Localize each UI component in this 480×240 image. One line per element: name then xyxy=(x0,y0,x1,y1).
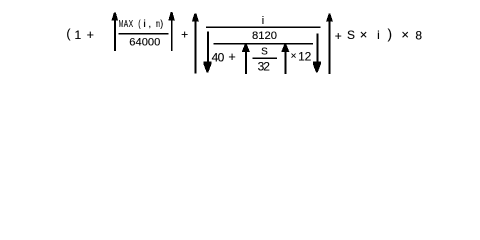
numerator MAX (i, m) : per-glyph xyxy=(119,19,163,30)
svg-text:×: × xyxy=(291,51,297,62)
ceiling arrow up A5 (right of big quotient) xyxy=(326,14,333,74)
svg-text:A: A xyxy=(124,19,129,30)
svg-text:1: 1 xyxy=(75,28,82,42)
svg-text:M: M xyxy=(119,19,124,30)
svg-text:×: × xyxy=(401,27,409,42)
svg-text:i: i xyxy=(262,15,264,27)
ceiling arrow up A3 (left of big quotient) xyxy=(192,13,199,73)
svg-text:i: i xyxy=(377,28,380,42)
floor arrow down A6 (right of denominator) xyxy=(313,34,321,73)
fraction bar S/32 xyxy=(253,57,278,59)
svg-text:+: + xyxy=(228,50,235,64)
svg-text:0: 0 xyxy=(218,50,225,64)
fraction bar of MAX(i,m)/64000 xyxy=(119,33,169,35)
ceiling arrow up A7 (left of S/32) xyxy=(242,44,250,74)
svg-text:2: 2 xyxy=(263,60,270,74)
svg-text:i: i xyxy=(143,19,146,30)
ceiling arrow up A8 (right of S/32) xyxy=(281,44,289,74)
floor arrow down A4 (left of denominator) xyxy=(203,31,211,72)
main fraction bar i / (...) xyxy=(206,26,321,28)
svg-text:+: + xyxy=(87,28,94,42)
second fraction bar 8120 / (...) xyxy=(213,43,313,45)
svg-text:8120: 8120 xyxy=(252,30,277,42)
svg-text:×: × xyxy=(360,27,368,42)
svg-text:64000: 64000 xyxy=(129,37,160,49)
svg-text:,: , xyxy=(148,19,151,30)
svg-text:): ) xyxy=(160,19,163,30)
svg-text:8: 8 xyxy=(415,29,422,43)
svg-text:X: X xyxy=(129,19,134,30)
svg-text:2: 2 xyxy=(305,49,312,63)
svg-text:+: + xyxy=(335,29,342,43)
svg-text:S: S xyxy=(347,28,355,42)
svg-text:S: S xyxy=(261,47,268,58)
svg-text:+: + xyxy=(181,28,188,42)
ceiling arrow up A1 (left of MAX fraction) xyxy=(112,12,119,51)
ceiling arrow up A2 (right of MAX fraction) xyxy=(168,12,175,51)
svg-text:): ) xyxy=(388,27,393,42)
